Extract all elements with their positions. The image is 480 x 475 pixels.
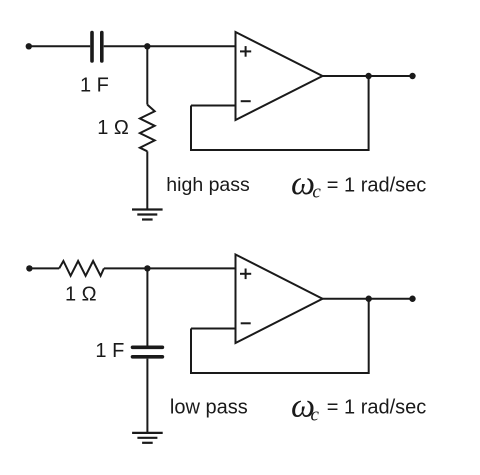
wire junction down to resistor	[146, 46, 148, 104]
node A (top junction dot)	[144, 43, 150, 49]
wire input to resistor	[29, 267, 59, 269]
wire resistor to op-amp + input	[104, 267, 236, 269]
node output junction dot (bottom)	[366, 296, 372, 302]
op-amp U2 minus input symbol	[241, 322, 251, 324]
svg-text:high pass: high pass	[166, 174, 250, 196]
wire feedback loop (bottom)	[191, 299, 369, 373]
op-amp U1 minus input symbol	[241, 100, 251, 102]
node Vin (bottom input terminal dot)	[26, 265, 32, 271]
ground (top)	[132, 210, 163, 220]
node Vin (top input terminal dot)	[26, 43, 32, 49]
svg-text:c: c	[311, 405, 320, 426]
label omega_c = 1 rad/sec (bottom)	[291, 387, 426, 425]
wire feedback loop (top)	[191, 76, 369, 150]
svg-text:1 Ω: 1 Ω	[97, 117, 129, 139]
op-amp U2 triangle	[236, 255, 323, 344]
wire op-amp output	[323, 75, 413, 77]
wire input to capacitor	[29, 45, 90, 47]
node Vout terminal dot (bottom)	[409, 296, 415, 302]
op-amp U1 plus input symbol	[240, 46, 251, 57]
capacitor C1 plates (1 F series)	[92, 33, 102, 62]
svg-text:1 F: 1 F	[95, 340, 124, 362]
svg-text:1 F: 1 F	[80, 74, 109, 96]
node output junction dot (top)	[365, 73, 371, 79]
wire minus input stub	[191, 105, 236, 107]
label omega_c = 1 rad/sec (top)	[291, 165, 426, 203]
svg-text:= 1 rad/sec: = 1 rad/sec	[327, 174, 427, 196]
wire junction down to capacitor	[146, 268, 148, 345]
capacitor C2 plates (1 F shunt)	[133, 347, 163, 357]
wire op-amp output (bottom)	[323, 298, 413, 300]
wire capacitor to op-amp + input	[104, 45, 236, 47]
svg-text:1 Ω: 1 Ω	[65, 283, 97, 305]
node Vout terminal dot (top)	[409, 73, 415, 79]
svg-text:low pass: low pass	[170, 397, 248, 419]
node B (bottom junction dot)	[144, 265, 150, 271]
svg-text:c: c	[312, 182, 321, 203]
resistor R1 (1 ohm shunt, vertical zigzag)	[140, 105, 155, 152]
wire resistor to ground	[146, 151, 148, 209]
op-amp U1 triangle	[236, 32, 323, 120]
wire capacitor to ground	[146, 359, 148, 433]
wire minus input stub (bottom)	[191, 328, 236, 330]
ground (bottom)	[132, 433, 163, 443]
op-amp U2 plus input symbol	[240, 269, 251, 280]
svg-text:= 1 rad/sec: = 1 rad/sec	[327, 396, 427, 418]
resistor R2 (1 ohm series, horizontal zigzag)	[59, 261, 104, 276]
